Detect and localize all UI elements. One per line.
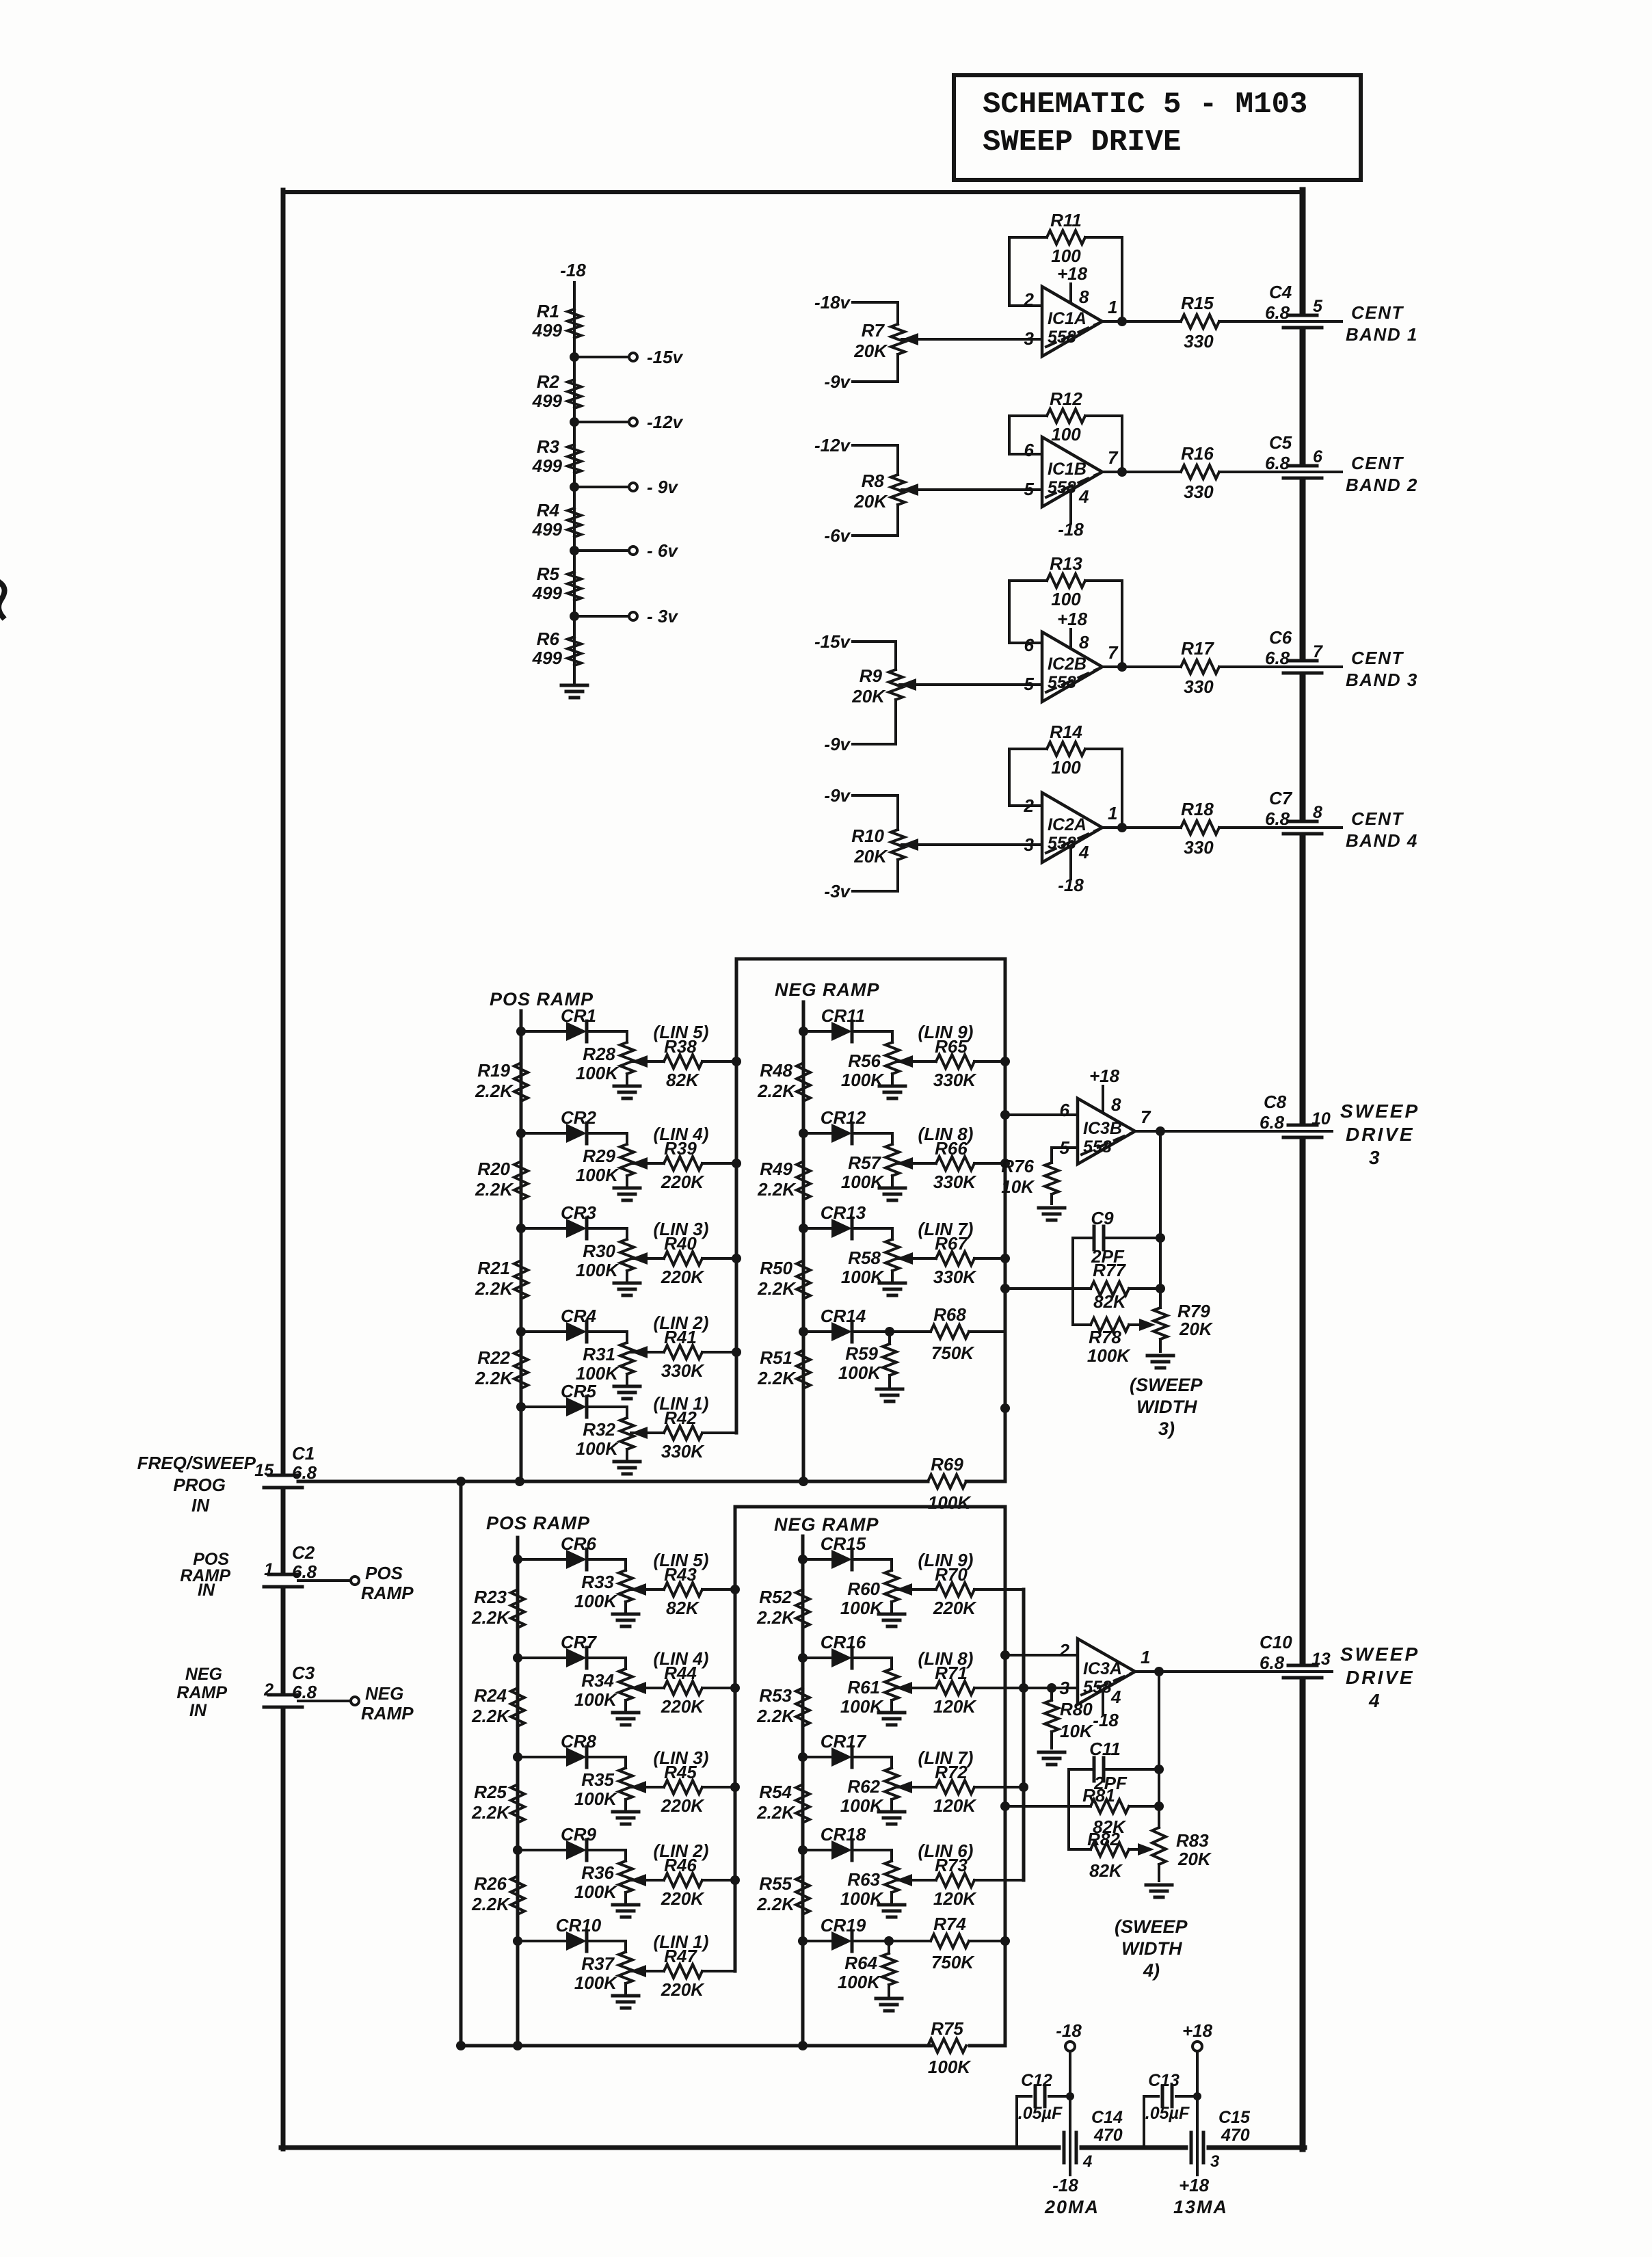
- power -18 pin 4 IC3A: [1093, 1687, 1121, 1730]
- svg-text:CR16: CR16: [821, 1632, 866, 1652]
- ground R79: [1147, 1356, 1173, 1368]
- svg-text:R35: R35: [581, 1769, 614, 1790]
- resistor R44 220K (LIN 4): [630, 1648, 735, 1717]
- resistor R15 330: [1181, 293, 1219, 352]
- resistor R25 2.2K: [471, 1782, 524, 1823]
- wire FREQ/SWEEP line: [298, 1477, 1005, 1486]
- svg-text:R5: R5: [537, 564, 560, 584]
- svg-text:+18: +18: [1179, 2175, 1210, 2195]
- svg-text:82K: 82K: [1089, 1860, 1123, 1881]
- svg-text:IC3B: IC3B: [1083, 1119, 1122, 1138]
- terminal -18 supply: [1056, 2020, 1082, 2148]
- diode CR18: [798, 1824, 892, 1860]
- svg-text:R20: R20: [477, 1159, 510, 1179]
- diode CR2: [516, 1107, 627, 1144]
- svg-text:WIDTH: WIDTH: [1121, 1938, 1182, 1959]
- svg-text:13MA: 13MA: [1173, 2197, 1228, 2217]
- svg-text:+18: +18: [1057, 609, 1088, 629]
- svg-text:R22: R22: [477, 1347, 510, 1368]
- ground R76: [1039, 1208, 1065, 1220]
- svg-text:CR19: CR19: [821, 1915, 866, 1936]
- svg-text:R34: R34: [581, 1670, 614, 1691]
- svg-text:100K: 100K: [576, 1260, 619, 1280]
- svg-text:R80: R80: [1060, 1699, 1093, 1719]
- resistor R26 2.2K: [471, 1873, 524, 1914]
- svg-text:SWEEP: SWEEP: [1340, 1644, 1420, 1665]
- resistor R73 120K (LIN 6): [896, 1873, 974, 1887]
- svg-text:R2: R2: [537, 371, 560, 392]
- resistor R65 330K (LIN 9): [896, 1055, 974, 1068]
- resistor R6 499: [532, 629, 581, 668]
- label POS RAMP IN: [180, 1550, 230, 1600]
- resistor R39 220K (LIN 4): [631, 1124, 736, 1192]
- svg-text:CR11: CR11: [821, 1005, 866, 1026]
- svg-text:R60: R60: [847, 1579, 880, 1599]
- svg-text:6: 6: [1313, 447, 1323, 466]
- svg-text:8: 8: [1313, 803, 1322, 822]
- wire C11 box left: [1067, 1769, 1070, 1849]
- svg-text:470: 470: [1221, 2126, 1250, 2145]
- resistor R54 2.2K: [756, 1782, 810, 1823]
- diode CR3: [516, 1202, 627, 1239]
- svg-text:R57: R57: [848, 1152, 881, 1173]
- resistor R75 100K: [928, 2018, 972, 2077]
- svg-text:4: 4: [1082, 2152, 1092, 2171]
- svg-text:6.8: 6.8: [292, 1682, 317, 1702]
- svg-text:.05µF: .05µF: [1145, 2104, 1190, 2123]
- svg-text:2: 2: [1024, 795, 1035, 816]
- potentiometer R61 100K: [840, 1658, 898, 1717]
- svg-text:R45: R45: [664, 1762, 697, 1782]
- wire lower summing right edge: [1000, 1507, 1010, 2046]
- resistor R24 2.2K: [471, 1685, 524, 1726]
- resistor R74 750K: [889, 1914, 1005, 1972]
- svg-text:R48: R48: [760, 1060, 792, 1081]
- label CENT BAND 3: [1346, 648, 1418, 690]
- svg-text:6.8: 6.8: [1260, 1652, 1285, 1673]
- wire top border: [283, 190, 1303, 194]
- power +18 pin 8 IC3B: [1089, 1066, 1121, 1115]
- svg-text:IC2A: IC2A: [1048, 815, 1087, 834]
- ground R36: [613, 1905, 639, 1917]
- svg-text:499: 499: [532, 583, 563, 603]
- resistor R16 330: [1181, 443, 1219, 502]
- potentiometer R58 100K: [841, 1228, 899, 1287]
- resistor R12 100 feedback: [1009, 388, 1122, 472]
- svg-text:330K: 330K: [933, 1172, 977, 1192]
- svg-text:C11: C11: [1089, 1739, 1121, 1759]
- svg-text:CR10: CR10: [556, 1915, 602, 1936]
- wire ladder vertical: [573, 282, 576, 684]
- wire bottom border: [281, 2146, 1305, 2150]
- resistor R82 82K: [1069, 1829, 1154, 1881]
- diode CR7: [513, 1632, 626, 1668]
- potentiometer R57 100K: [841, 1133, 899, 1192]
- svg-text:5: 5: [1024, 479, 1035, 499]
- resistor R42 330K (LIN 1): [631, 1393, 736, 1462]
- resistor R1 499: [532, 301, 581, 341]
- svg-text:CR8: CR8: [561, 1731, 597, 1752]
- svg-text:R68: R68: [933, 1304, 966, 1325]
- svg-text:R55: R55: [759, 1873, 792, 1894]
- potentiometer R35 100K: [574, 1757, 632, 1809]
- wire right border bus: [1300, 190, 1306, 2149]
- svg-text:NEG RAMP: NEG RAMP: [775, 979, 880, 1000]
- svg-text:CR2: CR2: [561, 1107, 597, 1128]
- svg-text:330: 330: [1184, 837, 1214, 858]
- svg-text:2.2K: 2.2K: [475, 1179, 514, 1200]
- terminal NEG RAMP: [298, 1683, 414, 1724]
- svg-text:R75: R75: [931, 2018, 963, 2039]
- resistor R80 10K: [1045, 1688, 1094, 1748]
- svg-text:-9v: -9v: [824, 785, 851, 806]
- svg-text:220K: 220K: [661, 1172, 705, 1192]
- svg-text:+18: +18: [1057, 263, 1088, 284]
- svg-text:R17: R17: [1181, 638, 1214, 659]
- svg-text:R9: R9: [860, 665, 883, 686]
- resistor R46 220K (LIN 2): [630, 1840, 735, 1909]
- svg-text:4: 4: [1110, 1687, 1121, 1707]
- terminal POS RAMP: [298, 1563, 414, 1603]
- wire lower box top edge: [735, 1505, 1005, 1509]
- wire IC3B output: [1135, 1126, 1284, 1136]
- op-amp IC3A 558: [1059, 1639, 1151, 1704]
- op-amp IC2A 558: [1024, 793, 1118, 862]
- resistor R41 330K (LIN 2): [631, 1312, 736, 1381]
- potentiometer R28 100K: [576, 1031, 634, 1083]
- svg-text:CR14: CR14: [821, 1306, 866, 1326]
- ground R63: [879, 1905, 905, 1917]
- svg-text:330: 330: [1184, 331, 1214, 352]
- svg-text:2.2K: 2.2K: [757, 1368, 797, 1388]
- wire R18 to bus: [1219, 826, 1284, 829]
- svg-text:CR5: CR5: [561, 1381, 597, 1401]
- svg-text:IC2B: IC2B: [1048, 655, 1087, 674]
- resistor R49 2.2K: [757, 1159, 810, 1200]
- svg-text:6.8: 6.8: [292, 1561, 317, 1582]
- svg-text:82K: 82K: [666, 1598, 700, 1618]
- svg-text:6.8: 6.8: [1265, 808, 1290, 829]
- svg-text:6: 6: [1024, 440, 1035, 460]
- potentiometer R79 20K: [1154, 1301, 1214, 1351]
- resistor R19 2.2K: [475, 1060, 528, 1101]
- wire left border bus: [281, 190, 286, 2149]
- svg-text:220K: 220K: [661, 1267, 705, 1287]
- op-amp IC1A 558: [1024, 287, 1118, 356]
- svg-text:330K: 330K: [661, 1441, 705, 1462]
- svg-text:7: 7: [1313, 642, 1323, 661]
- svg-text:499: 499: [532, 519, 563, 540]
- svg-text:3: 3: [1024, 328, 1035, 349]
- svg-text:100K: 100K: [1087, 1345, 1131, 1366]
- label POS RAMP: [490, 989, 594, 1009]
- potentiometer R7 20K: [814, 292, 918, 392]
- svg-text:-6v: -6v: [824, 525, 851, 546]
- svg-text:R72: R72: [935, 1762, 968, 1782]
- svg-text:C10: C10: [1260, 1632, 1292, 1652]
- resistor R59 100K: [838, 1327, 896, 1386]
- svg-text:R13: R13: [1050, 553, 1082, 574]
- svg-text:C4: C4: [1269, 282, 1292, 302]
- svg-text:2.2K: 2.2K: [471, 1607, 511, 1628]
- wire IC3B pin 5: [1052, 1146, 1078, 1149]
- resistor R48 2.2K: [757, 1060, 810, 1101]
- resistor R78 100K: [1073, 1318, 1156, 1366]
- resistor R70 220K (LIN 9): [896, 1583, 974, 1596]
- svg-text:R56: R56: [848, 1051, 881, 1071]
- label POS RAMP: [486, 1513, 590, 1533]
- label SWEEP WIDTH 3: [1130, 1375, 1203, 1439]
- svg-text:R47: R47: [664, 1946, 697, 1966]
- ground R34: [613, 1713, 639, 1725]
- potentiometer R30 100K: [576, 1228, 634, 1280]
- svg-text:R46: R46: [664, 1855, 697, 1875]
- svg-text:330: 330: [1184, 676, 1214, 697]
- svg-text:-18: -18: [1056, 2020, 1082, 2041]
- svg-text:C13: C13: [1148, 2071, 1180, 2090]
- resistor R38 82K (LIN 5): [631, 1022, 736, 1090]
- wire R16 to bus: [1219, 471, 1284, 473]
- svg-text:.05µF: .05µF: [1018, 2104, 1063, 2123]
- svg-text:-18: -18: [1093, 1710, 1119, 1730]
- svg-text:R21: R21: [477, 1258, 510, 1278]
- svg-text:558: 558: [1083, 1137, 1112, 1157]
- svg-text:220K: 220K: [661, 1795, 705, 1816]
- label CENT BAND 1: [1346, 302, 1418, 345]
- ground R33: [613, 1614, 639, 1626]
- svg-text:R4: R4: [537, 500, 560, 520]
- svg-text:1: 1: [1108, 803, 1117, 823]
- ground R30: [614, 1283, 640, 1295]
- potentiometer R60 100K: [840, 1559, 898, 1618]
- svg-text:10K: 10K: [1001, 1176, 1035, 1197]
- label SWEEP WIDTH 4: [1115, 1916, 1188, 1981]
- svg-text:POS RAMP: POS RAMP: [486, 1513, 590, 1533]
- svg-text:499: 499: [532, 320, 563, 341]
- wire output IC2B: [1102, 662, 1181, 672]
- svg-text:CENT: CENT: [1351, 302, 1404, 323]
- svg-text:R23: R23: [474, 1587, 507, 1607]
- diode CR10: [513, 1915, 626, 1951]
- svg-text:NEG RAMP: NEG RAMP: [774, 1514, 879, 1535]
- potentiometer R10 20K: [824, 785, 918, 901]
- svg-text:NEG: NEG: [365, 1683, 403, 1704]
- svg-text:220K: 220K: [933, 1598, 977, 1618]
- svg-text:2.2K: 2.2K: [756, 1706, 796, 1726]
- wire upper box left edge: [732, 959, 741, 1433]
- ground R56: [879, 1086, 905, 1098]
- diode CR11: [799, 1005, 892, 1042]
- wire R71 row to pin 3: [974, 1683, 1078, 1693]
- resistor R77 82K: [1005, 1260, 1160, 1312]
- svg-text:(SWEEP: (SWEEP: [1130, 1375, 1203, 1395]
- svg-text:499: 499: [532, 391, 563, 411]
- label +18 13MA: [1173, 2148, 1228, 2217]
- capacitor C10 6.8 pin 13: [1260, 1632, 1332, 1678]
- svg-text:558: 558: [1048, 328, 1076, 347]
- capacitor C4 6.8 pin 5: [1265, 282, 1342, 328]
- resistor R14 100 feedback: [1009, 722, 1122, 828]
- potentiometer R83 20K: [1152, 1827, 1212, 1881]
- resistor R22 2.2K: [475, 1347, 528, 1388]
- svg-text:100K: 100K: [576, 1165, 619, 1185]
- svg-text:CR1: CR1: [561, 1005, 596, 1026]
- ground R61: [879, 1713, 905, 1725]
- svg-text:100K: 100K: [574, 1882, 618, 1902]
- svg-text:-15v: -15v: [814, 631, 851, 652]
- tap node -6v: [570, 540, 678, 561]
- svg-text:13: 13: [1311, 1650, 1331, 1669]
- svg-text:750K: 750K: [931, 1952, 975, 1972]
- tap node -3v: [570, 606, 678, 626]
- svg-text:C1: C1: [292, 1443, 315, 1464]
- svg-text:(SWEEP: (SWEEP: [1115, 1916, 1188, 1937]
- ground R57: [879, 1188, 905, 1200]
- capacitor C2 6.8 pin 1: [264, 1542, 317, 1587]
- wire POS RAMP distribution bus: [520, 1011, 523, 1481]
- resistor R3 499: [532, 436, 581, 476]
- wire NEG RAMP distribution bus: [802, 1002, 805, 1481]
- svg-text:2.2K: 2.2K: [756, 1894, 796, 1914]
- resistor R72 120K (LIN 7): [896, 1780, 974, 1794]
- svg-text:R30: R30: [583, 1241, 615, 1261]
- op-amp IC1B 558: [1024, 437, 1119, 507]
- potentiometer R56 100K: [841, 1031, 899, 1090]
- svg-text:BAND 3: BAND 3: [1346, 670, 1418, 690]
- svg-text:1: 1: [1108, 297, 1117, 317]
- svg-text:+18: +18: [1089, 1066, 1120, 1086]
- svg-text:R77: R77: [1093, 1260, 1126, 1280]
- svg-text:C3: C3: [292, 1663, 315, 1683]
- wire lower bottom rail: [456, 2041, 1005, 2050]
- svg-text:R8: R8: [862, 471, 885, 491]
- svg-text:C7: C7: [1269, 788, 1293, 808]
- svg-text:CR13: CR13: [821, 1202, 866, 1223]
- wire output branch down 4: [1154, 1672, 1164, 1827]
- svg-text:R65: R65: [935, 1036, 968, 1057]
- label R71: [918, 1648, 978, 1717]
- svg-text:220K: 220K: [661, 1979, 705, 2000]
- label CENT BAND 2: [1346, 453, 1418, 495]
- op-amp IC2B 558: [1024, 632, 1119, 702]
- svg-text:2.2K: 2.2K: [471, 1706, 511, 1726]
- svg-text:-15v: -15v: [647, 347, 684, 367]
- label R72: [918, 1747, 978, 1816]
- svg-text:7: 7: [1141, 1107, 1151, 1127]
- ground R28: [614, 1086, 640, 1098]
- svg-text:WIDTH: WIDTH: [1136, 1397, 1197, 1417]
- svg-text:6: 6: [1060, 1100, 1070, 1120]
- wire upper summing right edge: [1000, 959, 1010, 1481]
- wire IC2A input pin 3: [902, 843, 1042, 846]
- capacitor C5 6.8 pin 6: [1265, 432, 1342, 478]
- capacitor C3 6.8 pin 2: [263, 1663, 317, 1707]
- svg-text:BAND 1: BAND 1: [1346, 324, 1418, 345]
- svg-text:-18: -18: [1052, 2175, 1078, 2195]
- svg-text:2: 2: [1024, 289, 1035, 310]
- svg-text:RAMP: RAMP: [176, 1683, 227, 1702]
- wire IC1A input pin 3: [902, 338, 1042, 341]
- potentiometer R34 100K: [574, 1658, 632, 1710]
- potentiometer R32 100K: [576, 1407, 634, 1459]
- diode CR14: [799, 1306, 892, 1342]
- svg-text:100K: 100K: [576, 1063, 619, 1083]
- op-amp IC3B 558: [1060, 1098, 1151, 1164]
- svg-text:100K: 100K: [576, 1438, 619, 1459]
- svg-text:CR15: CR15: [821, 1533, 866, 1554]
- svg-text:R64: R64: [844, 1953, 877, 1973]
- diode CR12: [799, 1107, 892, 1144]
- svg-text:20K: 20K: [853, 491, 888, 512]
- svg-text:2.2K: 2.2K: [471, 1802, 511, 1823]
- svg-text:-18: -18: [1058, 519, 1084, 540]
- svg-text:100K: 100K: [928, 2057, 972, 2077]
- svg-text:R49: R49: [760, 1159, 792, 1179]
- wire IC1B input pin 6: [1009, 453, 1042, 456]
- wire NEG RAMP distribution bus: [801, 1536, 805, 2046]
- svg-text:RAMP: RAMP: [361, 1703, 414, 1724]
- svg-text:R14: R14: [1050, 722, 1082, 742]
- label R70: [918, 1550, 978, 1618]
- svg-text:R26: R26: [474, 1873, 507, 1894]
- svg-text:C6: C6: [1269, 627, 1292, 648]
- svg-text:IN: IN: [189, 1701, 207, 1720]
- svg-text:CR17: CR17: [821, 1731, 867, 1752]
- potentiometer R63 100K: [840, 1850, 898, 1909]
- power -18 pin 4 IC2A: [1058, 842, 1089, 895]
- label FREQ/SWEEP PROG IN: [137, 1453, 256, 1516]
- svg-text:6.8: 6.8: [1265, 453, 1290, 473]
- label NEG RAMP: [775, 979, 880, 1000]
- svg-text:-18: -18: [1058, 875, 1084, 895]
- potentiometer R29 100K: [576, 1133, 634, 1185]
- svg-text:R50: R50: [760, 1258, 792, 1278]
- capacitor C8 6.8 pin 10: [1260, 1092, 1332, 1137]
- wire IC2B input pin 5: [900, 683, 1042, 686]
- svg-text:3: 3: [1060, 1678, 1070, 1698]
- power -18 pin 4 IC1B: [1058, 486, 1089, 540]
- svg-text:R24: R24: [474, 1685, 507, 1706]
- svg-text:R29: R29: [583, 1146, 615, 1166]
- svg-text:R40: R40: [664, 1233, 697, 1254]
- svg-text:2.2K: 2.2K: [756, 1607, 796, 1628]
- svg-text:CENT: CENT: [1351, 648, 1404, 668]
- svg-text:750K: 750K: [931, 1343, 975, 1363]
- svg-text:C5: C5: [1269, 432, 1292, 453]
- svg-text:POS: POS: [365, 1563, 403, 1583]
- svg-text:2.2K: 2.2K: [757, 1081, 797, 1101]
- wire lower box left edge: [730, 1507, 740, 1971]
- resistor R55 2.2K: [756, 1873, 810, 1914]
- svg-text:82K: 82K: [1093, 1291, 1128, 1312]
- svg-text:R36: R36: [581, 1862, 614, 1883]
- title box: [954, 75, 1361, 180]
- svg-text:2.2K: 2.2K: [756, 1802, 796, 1823]
- svg-text:558: 558: [1048, 673, 1076, 692]
- ground R60: [879, 1614, 905, 1626]
- svg-text:CR7: CR7: [561, 1632, 598, 1652]
- svg-text:20K: 20K: [851, 686, 886, 707]
- svg-text:100: 100: [1051, 589, 1081, 609]
- resistor R20 2.2K: [475, 1159, 528, 1200]
- svg-text:R70: R70: [935, 1564, 968, 1585]
- tap node -15v: [570, 347, 684, 367]
- svg-text:C2: C2: [292, 1542, 315, 1563]
- wire POS RAMP distribution bus: [516, 1537, 520, 2046]
- ground R64: [876, 1998, 902, 2011]
- wire R66 to summing edge: [918, 1124, 1005, 1192]
- svg-text:100K: 100K: [574, 1689, 618, 1710]
